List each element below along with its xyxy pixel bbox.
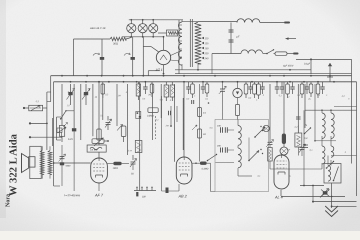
terminal HT+ bbox=[284, 22, 290, 24]
shield dashed bbox=[155, 116, 157, 139]
tube V2 AB2 bbox=[176, 157, 192, 184]
output transformer leads bbox=[41, 146, 43, 150]
transformer T1 leads bbox=[182, 21, 198, 23]
transformer T1 taps bbox=[202, 37, 205, 39]
wire vert x52.7 bbox=[52, 118, 54, 146]
wire vert x102 top bbox=[101, 39, 103, 76]
tube V1 AF7 bbox=[91, 158, 108, 183]
capacitor C-filter stack bbox=[230, 23, 232, 54]
resistor R-kath2 bbox=[235, 105, 239, 116]
wire bottom right h206 bbox=[332, 205, 357, 207]
wire vert x179 bbox=[178, 20, 180, 74]
wire bottom right h196 bbox=[281, 196, 345, 198]
tube V3 AL4 bbox=[274, 155, 289, 189]
pot column a bbox=[70, 84, 72, 105]
resistor R-k3 bbox=[268, 148, 273, 162]
output transformer T2 w1 bbox=[40, 151, 44, 175]
wire bottom left bbox=[54, 185, 60, 187]
resistor R-ant bbox=[29, 105, 43, 111]
wire vert x102.8 bbox=[102, 84, 104, 120]
osc coil L3a bbox=[238, 126, 241, 146]
wire vert x117 bbox=[116, 84, 118, 126]
wire vert x174 bbox=[173, 84, 175, 162]
bf coil P1 bbox=[322, 113, 325, 139]
osc wires bbox=[248, 138, 250, 161]
wire vert x139.7 bbox=[139, 82, 141, 191]
resistor capacitor bank under bus bbox=[102, 82, 104, 84]
lamp LP3 bbox=[149, 24, 158, 33]
switch arm T3 bbox=[334, 167, 339, 181]
bf switch1 bbox=[305, 128, 311, 134]
wire vert x80.8 bbox=[80, 84, 82, 140]
osc terminal circle bbox=[263, 125, 269, 131]
bf trimmer bbox=[300, 147, 305, 149]
capacitor C-block2 bbox=[60, 162, 64, 165]
wire vert x161 bbox=[160, 84, 162, 118]
bf coil P2 bbox=[322, 146, 325, 164]
wire stub x177 bbox=[176, 106, 178, 122]
wire after L2 bbox=[263, 53, 267, 55]
switch S-ht bbox=[267, 50, 274, 54]
wire vert x127 bbox=[126, 84, 128, 155]
wire bottom right h201 bbox=[313, 201, 357, 203]
trimmer C-pad bbox=[220, 88, 225, 90]
wire HT mid bbox=[212, 53, 241, 55]
bf coil Q2 bbox=[331, 146, 334, 157]
bus B junction dots bbox=[70, 81, 72, 83]
output transformer T2 w2 bbox=[48, 151, 52, 175]
cluster R-reg bbox=[92, 139, 104, 144]
wire fuse out bbox=[287, 53, 293, 55]
lamp LP2 bbox=[138, 24, 147, 33]
tube V1 leads bbox=[98, 183, 100, 191]
terminal out bbox=[293, 53, 299, 55]
resistor R-grid3 dark bbox=[282, 134, 286, 145]
pot arrow small bbox=[117, 125, 123, 131]
wire vert x313 bbox=[312, 186, 314, 202]
tube V2 leads bbox=[178, 184, 180, 191]
caps mid1 bbox=[168, 111, 170, 116]
wire grid drop V3 bbox=[283, 82, 285, 147]
pot column b bbox=[85, 84, 87, 105]
trimmer small det bbox=[192, 125, 197, 130]
wire left vert x46.9 bbox=[46, 92, 48, 150]
column x199 wires bbox=[199, 84, 201, 162]
wire heater drop 2 bbox=[142, 37, 144, 76]
wire bottom right h185 bbox=[300, 185, 324, 187]
jack bracket bbox=[56, 117, 58, 140]
bias cell box V1 bbox=[87, 145, 106, 152]
wire HT top right bbox=[260, 22, 284, 24]
capacitor C-osc1b bbox=[224, 127, 226, 133]
capacitor C-osc2a bbox=[220, 148, 222, 153]
wire right vert x356.5 bbox=[356, 82, 358, 196]
wire vert x92.9 bbox=[92, 84, 94, 136]
osc box bottom wire bbox=[215, 162, 234, 164]
tube V3 bottom lead bbox=[280, 190, 282, 196]
trimmer dark gnd bbox=[323, 191, 328, 194]
wire lamp rail bbox=[122, 36, 164, 38]
osc switch arm1 bbox=[255, 128, 265, 138]
resistor R-det2 bbox=[198, 129, 202, 138]
capacitor C-osc1a bbox=[220, 127, 222, 133]
wire vert x161 bbox=[161, 96, 163, 191]
wire det down bbox=[210, 163, 212, 191]
transformer sec tap stubs bbox=[179, 24, 182, 26]
az1 top wire bbox=[151, 47, 159, 52]
speaker cone bbox=[22, 154, 29, 173]
speaker frame bbox=[30, 146, 41, 178]
resistor R-diode bbox=[200, 162, 207, 165]
resistor R-g1 bbox=[121, 126, 126, 137]
dots misc bbox=[208, 102, 210, 104]
choke L1 bbox=[237, 19, 260, 23]
resistor R-g3 bbox=[295, 133, 302, 147]
wire vert x53.6 bbox=[53, 82, 55, 186]
trimmer CT3 bbox=[131, 161, 136, 163]
transformer T1 secondary bbox=[178, 22, 182, 65]
bus A junction dots bbox=[61, 75, 63, 77]
padder C-a bbox=[100, 57, 104, 60]
tube V5 AZ1 bbox=[163, 73, 165, 75]
resistor R-det1 bbox=[198, 108, 202, 117]
bf coil links bbox=[321, 136, 323, 146]
switch S-af bbox=[208, 155, 217, 161]
wire heater drop 1 bbox=[132, 37, 134, 76]
lamp LP1 bbox=[127, 24, 136, 33]
wire HT top bbox=[198, 21, 237, 23]
block dark x166 bbox=[166, 188, 169, 194]
trimmer CT-v3 bbox=[268, 141, 273, 143]
wire vert x62 bbox=[61, 84, 63, 119]
wire heater corner bbox=[73, 39, 75, 76]
wire vert x298 up bbox=[297, 84, 299, 133]
fuse F1 bbox=[275, 52, 287, 55]
resistor R-grid1 bbox=[113, 162, 121, 166]
bf mid wires bbox=[315, 140, 336, 142]
resistor R-surge box bbox=[167, 30, 178, 36]
output filter box T3 bbox=[324, 164, 341, 184]
wire aux y59 bbox=[296, 58, 352, 60]
paper texture bbox=[0, 0, 1, 1]
transformer T1 primary bbox=[195, 22, 201, 64]
wire busA drop bbox=[50, 76, 52, 102]
resistor R-h mid bbox=[148, 108, 158, 113]
top cap circle bbox=[280, 147, 288, 155]
padder C-b bbox=[131, 57, 135, 60]
potentiometer P1 bbox=[59, 126, 64, 137]
trimmer CT2 bbox=[106, 122, 111, 124]
osc coil L3b bbox=[238, 148, 241, 168]
bf wire top bbox=[305, 109, 331, 111]
bf verticals bbox=[304, 84, 306, 128]
capacitor C-g3 bbox=[303, 144, 308, 146]
resistor R-anode1 bbox=[97, 129, 101, 140]
wire x123.6 down bbox=[123, 137, 125, 143]
wire kath h169 bbox=[270, 168, 290, 170]
wire vert x270 bbox=[269, 84, 271, 142]
wire vert x62 bbox=[61, 145, 63, 186]
capacitor C-block1 bbox=[72, 128, 76, 131]
bf switch2 bbox=[327, 162, 334, 169]
trimmer C-sp bbox=[60, 156, 65, 158]
bus corner step bbox=[148, 70, 160, 72]
wire ant lead bbox=[43, 107, 47, 109]
wire fuse lead bbox=[274, 53, 276, 55]
wire aux y69 bbox=[175, 69, 311, 71]
capacitor C-osc2b bbox=[224, 147, 226, 153]
wire lamp top rail bbox=[129, 19, 183, 21]
osc switch arm2 bbox=[249, 151, 259, 161]
bus B bbox=[54, 81, 357, 83]
bf coil Q1 bbox=[331, 113, 334, 139]
ground arrow bbox=[325, 206, 338, 212]
padder box x138 bbox=[136, 112, 141, 119]
wire vert x152 bbox=[151, 84, 153, 140]
wire arrow stub bbox=[286, 38, 297, 40]
oscillator shield box bbox=[215, 120, 269, 192]
capacitor C-g3b bbox=[296, 116, 301, 118]
wire gnd drop bbox=[331, 183, 333, 208]
bus C bbox=[175, 73, 352, 75]
wire anode drop V2 bbox=[183, 82, 185, 157]
capacitor C-mid2 bbox=[191, 100, 193, 104]
switchbox left bbox=[57, 128, 62, 132]
az1 heater leads bbox=[171, 52, 180, 56]
switch S-wave bbox=[61, 111, 66, 119]
resistor R-heater 30ohm bbox=[110, 37, 126, 41]
terminal E1 bbox=[29, 122, 31, 124]
wire tube1 left bbox=[54, 162, 91, 164]
band switch ticks bbox=[134, 190, 156, 192]
wire right vert x351.5 bbox=[351, 59, 353, 163]
electrolytic C-kath bbox=[233, 88, 242, 97]
terminal E2 bbox=[29, 136, 31, 138]
transformer T1 core bbox=[189, 19, 191, 67]
wire stub x171 bbox=[170, 106, 172, 126]
terminal pickup arrow bbox=[329, 63, 331, 77]
wire anode drop V1 bbox=[98, 82, 100, 145]
speaker magnet bbox=[29, 157, 35, 167]
choke L2 bbox=[241, 50, 263, 54]
bus A bbox=[51, 75, 352, 77]
coilbox small bbox=[135, 141, 142, 153]
wire vert x183b bbox=[182, 98, 184, 150]
